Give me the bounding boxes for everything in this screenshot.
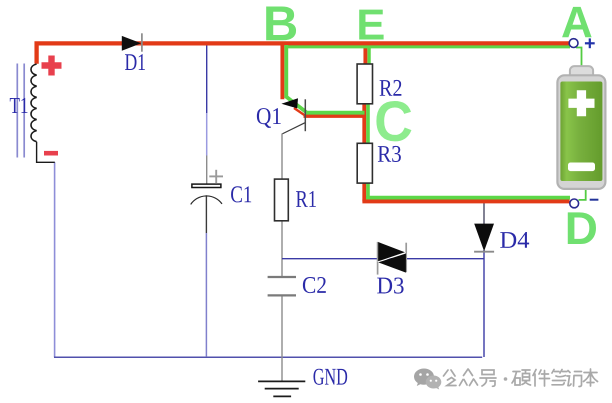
wire: red net bottom rail to D bbox=[362, 199, 569, 203]
label D1 bbox=[125, 54, 145, 70]
char bi bbox=[552, 370, 567, 385]
char ben bbox=[584, 369, 598, 386]
wire: D4 vertical (navy) bbox=[483, 202, 485, 224]
node label A bbox=[562, 7, 592, 37]
diode D3 cathode bar bbox=[405, 243, 407, 273]
transformer minus polarity mark bbox=[44, 151, 58, 156]
diode D1 bbox=[122, 36, 141, 51]
node A circle bbox=[569, 39, 578, 48]
node D minus mark bbox=[590, 199, 599, 201]
wire: green net bottom rail to D bbox=[366, 196, 570, 200]
wire: branch to D3 (navy) bbox=[282, 258, 484, 260]
wire: red net transformer to top rail through D1 to A bbox=[37, 43, 570, 63]
label C1 bbox=[231, 186, 251, 202]
transistor Q1 emitter arrow bbox=[281, 98, 298, 108]
wire: R1 bottom to C2 (gray) bbox=[281, 221, 283, 276]
resistor R3 bbox=[357, 143, 372, 183]
battery body bbox=[557, 75, 605, 189]
diode D4 cathode bar bbox=[474, 251, 494, 253]
middle dot bbox=[504, 377, 508, 381]
wire: green net node C vertical lower bbox=[366, 180, 370, 199]
char zhong bbox=[460, 369, 478, 386]
resistor R1 bbox=[275, 179, 289, 221]
wire: collector down to R1 (gray) bbox=[281, 134, 283, 180]
label T1 bbox=[10, 98, 28, 113]
wire: green net top rail B to A bbox=[284, 45, 570, 48]
char jian bbox=[533, 370, 550, 387]
wire: C1 bottom to ground rail (purple) bbox=[205, 233, 207, 357]
label Q1 bbox=[257, 108, 281, 128]
wire: battery top terminal lead (green thin) bbox=[576, 48, 582, 67]
diode D3 white gap bbox=[378, 252, 406, 261]
node D circle bbox=[570, 199, 579, 208]
resistor R2 bbox=[357, 64, 372, 104]
char ying bbox=[512, 370, 531, 385]
label D3 bbox=[377, 278, 403, 294]
label GND bbox=[313, 369, 347, 385]
wire: red net E vertical into R2 bbox=[363, 45, 367, 68]
wire: C1 top lead from D1 node (navy) bbox=[206, 44, 208, 113]
wire: red net Q1 base lead to node C bbox=[304, 114, 367, 118]
diode D3 upper triangle bbox=[378, 242, 405, 261]
diode D4 bbox=[474, 224, 494, 252]
wire: C1 bottom lead (dark) bbox=[205, 195, 207, 233]
capacitor C1 plus mark bbox=[209, 170, 223, 183]
wire: bottom ground rail (navy) bbox=[54, 356, 482, 358]
wire: green net E vertical bbox=[367, 47, 370, 65]
watermark text bbox=[444, 369, 598, 387]
char gong bbox=[444, 370, 457, 386]
wire: transformer core lines net (purple) bbox=[17, 64, 24, 158]
label R2 bbox=[380, 80, 402, 96]
capacitor C2 plates bbox=[268, 277, 296, 295]
wire: green net node C vertical upper bbox=[366, 102, 370, 147]
wire: C2 bottom to GND symbol (gray) bbox=[281, 296, 283, 381]
char ji bbox=[567, 371, 582, 387]
wire: red net node C vertical lower bbox=[362, 180, 366, 202]
wire: red net Q1 emitter diagonal sliver bbox=[294, 108, 307, 117]
char hao bbox=[480, 370, 496, 386]
label R3 bbox=[378, 146, 401, 162]
wire: C1 lead into plate (gray) bbox=[206, 156, 208, 184]
node label B bbox=[266, 6, 296, 40]
node A plus mark bbox=[585, 38, 595, 48]
wire: transformer secondary to bottom-left loop (purple) bbox=[54, 162, 56, 357]
battery minus symbol bbox=[568, 163, 595, 172]
ground symbol bbox=[258, 381, 305, 396]
wire: red net node C vertical upper bbox=[362, 101, 366, 147]
transformer T1 bottom lead bbox=[37, 142, 55, 163]
node label D bbox=[568, 212, 596, 244]
capacitor C1 top plate bbox=[192, 184, 221, 187]
node label C bbox=[376, 101, 411, 141]
battery cap bump bbox=[570, 66, 593, 80]
capacitor C1 curved bottom plate bbox=[191, 196, 222, 204]
wire: red net B vertical bbox=[280, 43, 284, 99]
wire: Q1 collector diagonal (dark thin) bbox=[282, 123, 305, 134]
battery green cell bbox=[560, 82, 602, 182]
label D4 bbox=[500, 232, 529, 248]
battery plus symbol bbox=[568, 90, 594, 116]
wire: green net B down through Q1 emitter to node C bbox=[286, 45, 364, 113]
transformer plus polarity mark bbox=[42, 56, 62, 76]
transformer T1 coil bbox=[31, 64, 37, 142]
diode D1 cathode bar bbox=[141, 33, 143, 51]
transistor Q1 base bar bbox=[304, 99, 306, 131]
watermark wechat icon bbox=[414, 369, 441, 390]
wire: C1 mid lead (light purple) bbox=[206, 113, 208, 156]
node label E bbox=[359, 10, 383, 40]
label R1 bbox=[296, 191, 316, 207]
label C2 bbox=[303, 277, 326, 293]
diode D3 anode bar bbox=[377, 242, 379, 275]
diode D3 lower triangle bbox=[378, 254, 406, 273]
wire: battery bottom terminal lead (green thin) bbox=[579, 188, 586, 200]
